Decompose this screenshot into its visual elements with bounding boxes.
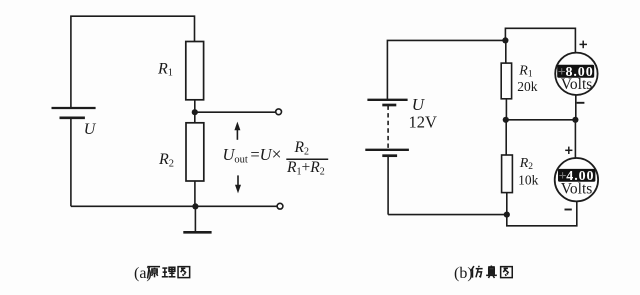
wire: middle rail (b) (506, 119, 576, 121)
caption (b) glyph: fang (471, 266, 483, 278)
arrow down (Uout) (235, 175, 241, 193)
battery U plates (a) (52, 108, 96, 118)
resistor R1 20k (b) body (501, 63, 511, 99)
terminal: output bottom open circle (277, 203, 283, 209)
ground (a) (183, 206, 211, 232)
svg-text:R1: R1 (157, 61, 173, 79)
wire: riser from node T1 over to voltmeter M1 top (505, 28, 575, 53)
wire: bottom step under voltmeter M2 (507, 201, 577, 226)
node M1 (b) mid-right junction (572, 117, 578, 123)
wire: (b) bottom rail (388, 214, 507, 216)
fraction bar R2/(R1+R2) (286, 158, 328, 160)
resistor R1 (a) body (186, 42, 204, 100)
node B (bottom rail junction) (192, 203, 198, 209)
wire: R2 bottom to bottom rail (194, 181, 196, 206)
node T1 (b) top junction (502, 37, 508, 43)
voltmeter U1 (+8.00 Volts) (555, 53, 597, 95)
polarity - (M2) (565, 209, 572, 211)
svg-text:R2: R2 (158, 151, 174, 170)
svg-text:(b): (b) (454, 265, 473, 282)
wire: output top (195, 111, 276, 113)
node B2 (b) bottom junction (504, 212, 510, 218)
wire: voltmeter M1 bottom to mid rail (575, 95, 577, 120)
caption (a) glyph: yuan (147, 267, 160, 279)
caption (a) glyph: li (162, 267, 176, 277)
svg-text:Uout=U×: Uout=U× (223, 144, 282, 166)
terminal: output top open circle (276, 109, 282, 115)
svg-text:R2: R2 (294, 139, 309, 158)
voltmeter U2 (+4.00 Volts) (555, 158, 598, 201)
wire: node M1 down to voltmeter M2 top (574, 120, 576, 158)
caption (a) glyph: tu (178, 267, 190, 278)
caption (b) glyph: tu (501, 267, 513, 278)
node A (R1/R2 junction) (192, 109, 198, 115)
svg-text:10k: 10k (518, 173, 539, 188)
resistor R2 (a) body (186, 123, 204, 181)
wire: node T1 down to R1 (b) (505, 40, 507, 63)
svg-text:Volts: Volts (561, 76, 593, 93)
caption (b) glyph: zhen (486, 265, 497, 277)
arrow up (Uout) (234, 122, 240, 140)
wire: circuit (b) left vertical + top wire (387, 40, 505, 99)
svg-text:R2: R2 (519, 156, 534, 172)
wire: R1 (b) bottom to mid node (505, 99, 507, 120)
polarity - (M1) (577, 102, 585, 104)
svg-text:20k: 20k (517, 79, 538, 94)
wire: R2 (b) bottom to node B2 (506, 193, 508, 215)
wire: (a) left vertical lower (70, 118, 72, 207)
svg-text:12V: 12V (409, 113, 438, 132)
wire: (a) bottom rail (71, 205, 277, 207)
svg-text:R1+R2: R1+R2 (286, 159, 325, 178)
formula Uout = U x R2/(R1+R2) (223, 139, 325, 177)
svg-text:R1: R1 (518, 64, 533, 80)
wire: circuit (a) left vertical + top wire + drop to R1 (71, 16, 195, 108)
wire: mid node down to R2 (b) (505, 120, 507, 155)
wire: R1 bottom to node to R2 top (194, 100, 196, 123)
wire: (b) battery bottom to bottom rail (387, 156, 389, 215)
resistor R2 10k (b) body (502, 155, 513, 193)
svg-text:Volts: Volts (561, 181, 593, 198)
polarity + (M2) (565, 147, 572, 154)
battery U 12V (b) (365, 100, 409, 156)
svg-text:U: U (84, 121, 97, 138)
node R (b) mid-left junction (503, 117, 509, 123)
svg-text:U: U (412, 95, 426, 114)
polarity + (M1) (580, 41, 588, 49)
